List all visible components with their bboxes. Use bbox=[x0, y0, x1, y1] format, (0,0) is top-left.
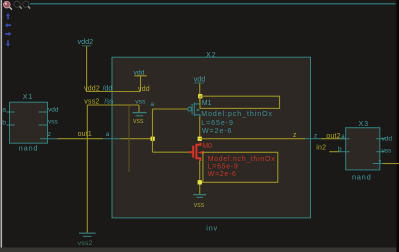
svg-text:vss: vss bbox=[135, 98, 146, 105]
M1 property text bbox=[201, 111, 273, 135]
wire M0 bulk down bbox=[202, 152, 204, 182]
pin a of X3 bbox=[339, 134, 350, 140]
toolbar arrow left bbox=[5, 23, 11, 27]
instance box X2 (inv, expanded) bbox=[112, 57, 311, 218]
svg-text:L=65e-9: L=65e-9 bbox=[201, 120, 234, 127]
wire vdd to M1 source bbox=[199, 83, 201, 101]
wire in2 bbox=[329, 151, 339, 153]
wire out1 (yellow) bbox=[57, 138, 103, 140]
svg-text:inv: inv bbox=[206, 224, 218, 233]
instance box X1 (nand) bbox=[10, 102, 48, 143]
pin z of X3 bbox=[373, 159, 383, 166]
svg-text:X3: X3 bbox=[359, 119, 369, 128]
svg-text:vss: vss bbox=[382, 147, 393, 154]
junction dot source/bulk bbox=[198, 180, 202, 184]
svg-text:a: a bbox=[2, 107, 6, 114]
M0 property text bbox=[208, 156, 276, 178]
svg-text:/dd: /dd bbox=[103, 85, 113, 92]
wire out2 bbox=[321, 138, 346, 140]
wire vss2 horizontal into inv vss pin bbox=[87, 104, 139, 106]
svg-text:a: a bbox=[106, 131, 110, 138]
pin vdd of X3 bbox=[376, 136, 392, 143]
bottom window strip bbox=[0, 248, 399, 252]
supply symbol vdd above M1 bbox=[194, 76, 205, 83]
svg-text:vss2: vss2 bbox=[84, 98, 99, 105]
transistor M1 (pch) bbox=[188, 101, 201, 118]
wire bulk loop M1 bbox=[200, 96, 280, 108]
svg-text:out1: out1 bbox=[78, 131, 92, 138]
toolbar icon: zoom-out magnifier bbox=[23, 1, 30, 8]
wire gate vertical bbox=[152, 109, 154, 152]
M0 bulk arrow bbox=[198, 151, 204, 155]
svg-text:z: z bbox=[293, 132, 297, 139]
svg-text:a: a bbox=[151, 101, 155, 108]
ground symbol vss2 (bottom left) bbox=[78, 233, 96, 247]
supply symbol vdd2 (top) bbox=[78, 37, 94, 46]
svg-text:b: b bbox=[2, 119, 6, 126]
svg-text:M1: M1 bbox=[202, 100, 212, 107]
svg-text:out2: out2 bbox=[326, 133, 340, 140]
wire bulk loop M0 bbox=[200, 152, 278, 182]
pin vdd of X1 bbox=[39, 106, 59, 113]
svg-text:z: z bbox=[314, 132, 317, 139]
wire M1 drain down bbox=[199, 117, 201, 139]
toolbar icon: zoom-in magnifier bbox=[14, 1, 22, 8]
pin vss of X3 bbox=[376, 147, 392, 154]
wire out1 inside box bbox=[121, 138, 153, 140]
svg-text:vss: vss bbox=[133, 118, 144, 125]
svg-text:M0: M0 bbox=[202, 143, 212, 150]
wire vss2 vertical down bbox=[86, 105, 88, 233]
svg-text:nand: nand bbox=[19, 144, 39, 153]
svg-text:W=2e-6: W=2e-6 bbox=[202, 128, 232, 135]
pin z of X1 bbox=[40, 131, 57, 139]
junction dot output bbox=[198, 137, 202, 141]
top teal accent line bbox=[30, 3, 396, 5]
svg-text:vss2: vss2 bbox=[78, 240, 93, 247]
svg-text:vdd: vdd bbox=[138, 86, 150, 93]
svg-text:/ss: /ss bbox=[104, 98, 113, 105]
svg-text:vdd: vdd bbox=[48, 106, 59, 113]
toolbar arrow up bbox=[6, 13, 10, 19]
svg-text:X1: X1 bbox=[23, 92, 33, 101]
svg-text:X2: X2 bbox=[206, 50, 216, 59]
pin stub a of inv (teal) bbox=[103, 138, 121, 140]
pin stub z of inv bbox=[305, 138, 321, 140]
pin b of X3 bbox=[338, 146, 350, 153]
svg-text:Model:nch_thinOx: Model:nch_thinOx bbox=[208, 156, 276, 163]
pin vss of inv (left) bbox=[133, 98, 147, 125]
svg-text:z: z bbox=[48, 131, 51, 138]
instance box X3 (nand) bbox=[346, 128, 380, 170]
right window edge bbox=[397, 0, 399, 252]
toolbar arrow right bbox=[5, 32, 11, 36]
svg-text:z: z bbox=[378, 159, 381, 166]
svg-text:vdd2: vdd2 bbox=[78, 37, 94, 46]
pin vss of X1 bbox=[39, 118, 59, 125]
svg-text:vss: vss bbox=[194, 202, 205, 209]
junction dot input bbox=[151, 137, 155, 141]
wire gate to M1 bbox=[153, 108, 188, 110]
wire vdd2 horizontal into inv vdd pin bbox=[86, 91, 140, 93]
svg-text:vdd: vdd bbox=[382, 136, 393, 143]
svg-text:Model:pch_thinOx: Model:pch_thinOx bbox=[201, 111, 273, 118]
toolbar arrow down bbox=[6, 40, 10, 46]
wire z of X3 to edge bbox=[383, 163, 399, 165]
toolbar icon: red magnifier bbox=[3, 1, 12, 9]
wire z output bbox=[200, 138, 305, 140]
wire gate to M0 bbox=[153, 151, 189, 153]
pin b of X1 bbox=[2, 119, 14, 126]
ground symbol vss under M0 bbox=[193, 195, 206, 210]
svg-text:W=2e-6: W=2e-6 bbox=[208, 171, 237, 178]
wire M0 source down bbox=[199, 161, 201, 194]
svg-text:L=65e-9: L=65e-9 bbox=[208, 163, 239, 170]
svg-text:vdd: vdd bbox=[194, 76, 205, 83]
svg-text:vss: vss bbox=[48, 118, 59, 125]
wire vdd2 vertical bbox=[86, 46, 88, 91]
dim vertical wire (vss net) bbox=[128, 106, 130, 172]
junction dot vdd/bulk bbox=[198, 94, 202, 98]
transistor M0 (nch, highlighted) bbox=[189, 143, 201, 161]
pin a of X1 bbox=[2, 107, 14, 114]
left window edge bbox=[1, 0, 3, 252]
svg-text:in2: in2 bbox=[316, 144, 326, 151]
svg-text:nand: nand bbox=[352, 173, 372, 182]
pin vdd of inv (left) bbox=[134, 69, 150, 93]
svg-text:vdd2: vdd2 bbox=[84, 85, 100, 92]
